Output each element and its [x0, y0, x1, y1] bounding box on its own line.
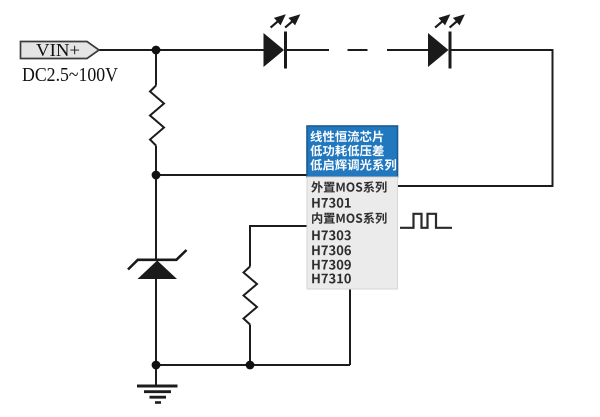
wire resistor R2 to bottom rail: [249, 325, 251, 366]
wire IC bottom pin to bottom rail: [349, 288, 351, 365]
wire resistor R1 to node B: [155, 146, 157, 176]
svg-text:DC2.5~100V: DC2.5~100V: [22, 65, 118, 86]
node A junction dot: [152, 46, 161, 55]
wire node A down to resistor R1: [155, 50, 157, 86]
label H7310: [312, 274, 351, 284]
label H7301: [312, 198, 351, 208]
wire to LED D2 anode: [387, 49, 429, 51]
label H7306: [312, 245, 351, 255]
wire zener D3 to ground node: [155, 279, 157, 365]
wire LED D1 cathode segment: [287, 49, 329, 51]
wire IC 内置MOS pin to resistor R2: [250, 226, 308, 267]
wire node A to LED D1 anode: [157, 49, 265, 51]
LED D2 emission arrows: [435, 16, 463, 28]
wire bottom rail: [156, 364, 350, 366]
label H7309: [312, 260, 351, 270]
label 外置MOS系列: [311, 181, 386, 193]
label 线性恒流芯片: [310, 131, 383, 143]
IC info box gray body: [307, 177, 398, 289]
zener diode D3: [128, 250, 187, 279]
wire right rail vertical: [552, 50, 554, 186]
resistor R1: [150, 86, 164, 146]
input tag VIN+: [21, 40, 100, 60]
wire node B down to zener D3: [155, 175, 157, 261]
label 低启辉调光系列: [310, 159, 396, 171]
label H7303: [312, 230, 351, 240]
label 低功耗低压差: [310, 145, 384, 157]
label 内置MOS系列: [312, 212, 386, 224]
IC info box blue header: [307, 126, 398, 177]
wire dashed LED string continuation: [348, 49, 368, 51]
svg-text:VIN+: VIN+: [36, 40, 80, 60]
node B junction dot: [152, 171, 161, 180]
PWM dimming waveform: [400, 214, 452, 228]
ground node junction dot: [152, 361, 161, 370]
bottom rail junction dot at R2: [246, 361, 255, 370]
wire LED D2 cathode to right rail: [451, 49, 554, 51]
wire VIN+ to node A: [98, 49, 157, 51]
LED D1: [264, 32, 288, 69]
LED D1 emission arrows: [271, 16, 299, 28]
LED D2: [428, 32, 452, 69]
wire node B to IC left pin: [156, 174, 308, 176]
wire ground stem: [155, 365, 157, 385]
ground: [137, 386, 178, 403]
wire right rail to IC pin (外置MOS row): [398, 185, 554, 187]
resistor R2: [244, 267, 258, 325]
